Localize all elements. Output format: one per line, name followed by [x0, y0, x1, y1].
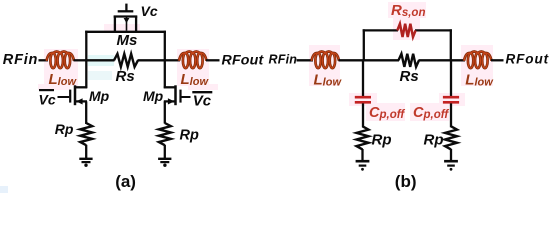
ground right (a)	[158, 159, 171, 167]
wire Rp left to ground (b)	[361, 149, 363, 161]
wire top left segment (b)	[363, 29, 398, 31]
transistor Mp right (a)	[164, 85, 191, 105]
wire Mp right to Rp (a)	[164, 101, 166, 123]
wire left rail (a)	[85, 31, 87, 89]
inductor L_low left (a)	[47, 52, 75, 69]
label Vc-bar right	[192, 92, 212, 109]
svg-text:Rp: Rp	[55, 121, 74, 137]
wire Rp left to ground (a)	[85, 145, 87, 159]
transistor Ms	[114, 4, 138, 32]
transistor Mp left (a)	[58, 85, 88, 105]
wire top right segment (b)	[415, 29, 452, 31]
svg-text:Rp: Rp	[180, 128, 199, 144]
wire Rp right to ground (b)	[450, 149, 452, 161]
svg-text:RFin: RFin	[269, 53, 298, 67]
resistor Rs,on	[397, 24, 415, 37]
wire L_low right to RFout (a)	[206, 59, 220, 61]
wire main node to Rs (a)	[85, 59, 115, 61]
ground left (a)	[79, 159, 92, 167]
resistor Rp right (b)	[445, 126, 457, 149]
wire L_low right to RFout (b)	[491, 59, 504, 61]
ground right (b)	[444, 161, 458, 171]
resistor Rp left (b)	[357, 126, 369, 149]
svg-text:Mp: Mp	[143, 88, 164, 104]
wire node to Cp,off left (b)	[362, 60, 364, 96]
resistor Rs (a)	[114, 54, 138, 67]
svg-text:RFout: RFout	[222, 52, 265, 68]
svg-text:(a): (a)	[115, 172, 136, 191]
inductor L_low left (b)	[312, 52, 340, 69]
wire right node to L_low right (a)	[164, 59, 180, 61]
wire Cp,off to Rp right (b)	[450, 103, 452, 127]
svg-text:Ms: Ms	[117, 32, 138, 49]
svg-text:Rp: Rp	[372, 132, 392, 149]
wire right rail top (b)	[450, 29, 452, 61]
svg-text:RFout: RFout	[506, 52, 549, 67]
wire top (a)	[85, 31, 166, 33]
wire node to Cp,off right (b)	[450, 60, 452, 96]
ground left (b)	[356, 161, 370, 171]
svg-text:Vc: Vc	[141, 3, 158, 19]
capacitor Cp,off right	[443, 97, 459, 102]
wire L_low to node (a)	[74, 59, 88, 61]
wire Mp left to Rp (a)	[85, 101, 87, 124]
svg-text:Rs: Rs	[116, 68, 135, 85]
label Vc-bar left	[39, 90, 56, 107]
wire RFin to L_low (a)	[39, 59, 49, 61]
capacitor Cp,off left	[355, 97, 371, 102]
inductor L_low right (a)	[179, 52, 207, 69]
wire right rail (a)	[164, 31, 166, 89]
svg-text:Mp: Mp	[89, 88, 110, 104]
wire Rp right to ground (a)	[164, 145, 166, 159]
artifact halos	[0, 2, 493, 193]
wire Rs to right node (b)	[419, 59, 466, 61]
resistor Rp right (a)	[159, 123, 171, 145]
wire left rail top (b)	[363, 29, 365, 61]
wire Cp,off to Rp left (b)	[362, 103, 364, 127]
svg-text:(b): (b)	[395, 172, 417, 191]
wire Rs to right node (a)	[138, 59, 167, 61]
resistor Rs (b)	[399, 54, 420, 67]
wire L_low to left node (b)	[339, 59, 400, 61]
inductor L_low right (b)	[464, 52, 492, 69]
svg-text:Vc: Vc	[193, 92, 212, 109]
svg-text:Vc: Vc	[39, 91, 56, 107]
svg-text:Rs: Rs	[400, 68, 419, 85]
svg-text:RFin: RFin	[3, 52, 38, 68]
svg-text:Rp: Rp	[424, 132, 444, 149]
wire RFin to L_low (b)	[297, 59, 314, 61]
resistor Rp left (a)	[80, 123, 92, 145]
